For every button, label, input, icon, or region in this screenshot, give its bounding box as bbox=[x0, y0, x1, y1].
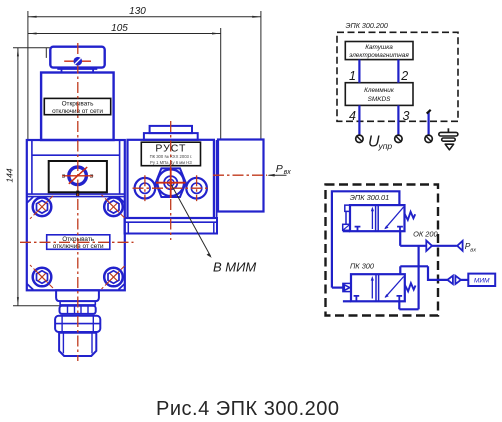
svg-text:1: 1 bbox=[349, 69, 356, 83]
svg-text:3: 3 bbox=[62, 174, 65, 180]
svg-text:Рис.4 ЭПК 300.200: Рис.4 ЭПК 300.200 bbox=[156, 398, 340, 420]
svg-text:упр: упр bbox=[378, 141, 393, 151]
svg-text:Клеммник: Клеммник bbox=[364, 87, 395, 94]
svg-text:Катушка: Катушка bbox=[365, 44, 393, 51]
svg-text:ЭПК 300.200: ЭПК 300.200 bbox=[346, 21, 388, 30]
svg-text:ОК 200: ОК 200 bbox=[413, 230, 438, 239]
svg-text:4: 4 bbox=[349, 109, 356, 123]
svg-text:3: 3 bbox=[403, 109, 410, 123]
svg-text:130: 130 bbox=[129, 6, 146, 17]
svg-text:ЭПК 300.01: ЭПК 300.01 bbox=[350, 193, 390, 202]
svg-text:2: 2 bbox=[400, 69, 408, 83]
svg-text:вх: вх bbox=[470, 247, 476, 253]
svg-text:МИМ: МИМ bbox=[474, 277, 490, 284]
svg-text:P: P bbox=[276, 163, 283, 175]
svg-text:105: 105 bbox=[111, 23, 128, 34]
svg-text:144: 144 bbox=[5, 168, 15, 182]
svg-text:3: 3 bbox=[90, 174, 93, 180]
svg-text:ПК 300: ПК 300 bbox=[350, 262, 375, 271]
svg-text:электромагнитная: электромагнитная bbox=[349, 52, 409, 59]
svg-text:В МИМ: В МИМ bbox=[213, 260, 256, 275]
svg-text:вх: вх bbox=[284, 169, 292, 176]
svg-text:SMKDS: SMKDS bbox=[368, 96, 391, 103]
